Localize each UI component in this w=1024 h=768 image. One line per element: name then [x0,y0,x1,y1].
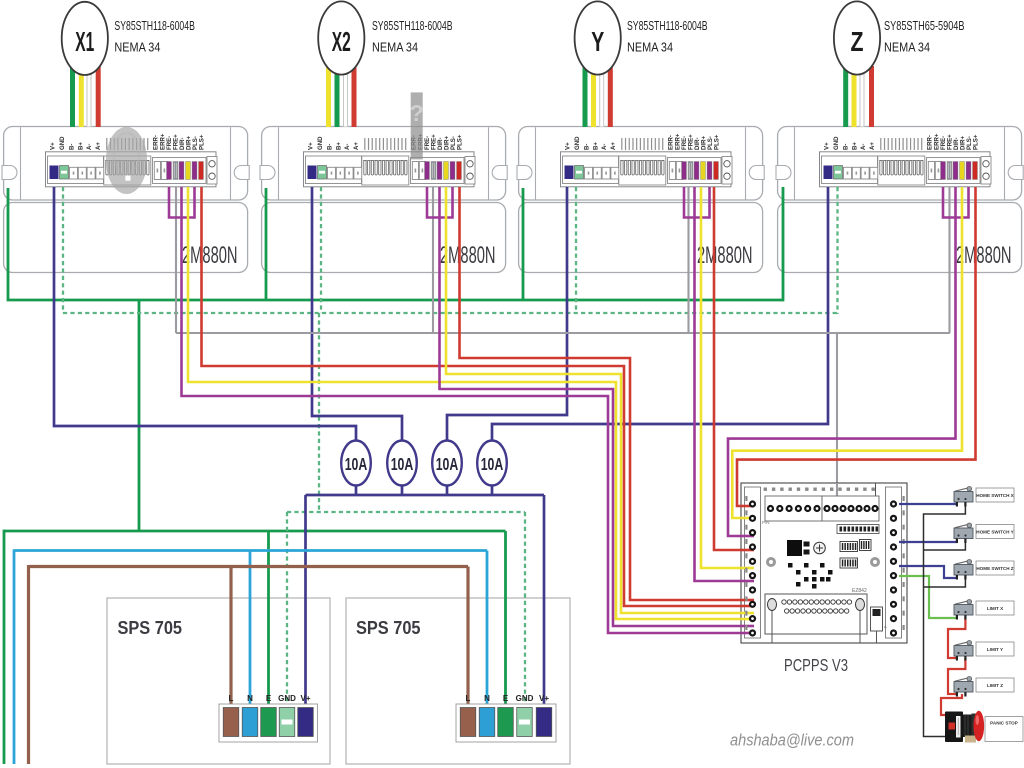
svg-text:GND: GND [516,694,534,703]
svg-text:ahshaba@live.com: ahshaba@live.com [730,731,854,750]
svg-text:LIMIT Z: LIMIT Z [987,683,1003,688]
svg-text:NEMA 34: NEMA 34 [884,39,930,54]
svg-text:Y: Y [591,26,604,57]
svg-text:PCPPS V3: PCPPS V3 [784,655,848,675]
svg-text:N: N [484,694,490,703]
svg-text:10A: 10A [481,454,504,474]
svg-text:HOME SWITCH Y: HOME SWITCH Y [976,529,1013,534]
svg-text:HOME SWITCH X: HOME SWITCH X [976,493,1014,498]
svg-text:LIMIT Y: LIMIT Y [987,647,1003,652]
svg-text:V+: V+ [300,694,310,703]
svg-text:10A: 10A [345,454,368,474]
svg-text:L: L [466,694,471,703]
svg-text:A: A [884,624,887,629]
svg-text:NEMA 34: NEMA 34 [627,39,673,54]
svg-text:GND: GND [278,694,296,703]
svg-text:SPS 705: SPS 705 [356,617,421,638]
svg-text:L: L [229,694,234,703]
svg-text:E: E [503,694,509,703]
svg-text:SY85STH118-6004B: SY85STH118-6004B [372,18,453,33]
svg-text:HOME SWITCH Z: HOME SWITCH Z [976,566,1013,571]
svg-text:SY85STH65-5904B: SY85STH65-5904B [884,18,965,33]
svg-text:N: N [247,694,253,703]
svg-text:SPS 705: SPS 705 [118,617,183,638]
svg-text:SY85STH118-6004B: SY85STH118-6004B [114,18,194,33]
svg-text:NEMA 34: NEMA 34 [372,39,418,54]
svg-text:E: E [266,694,272,703]
svg-text:PANIC STOP: PANIC STOP [990,721,1018,726]
svg-text:Z: Z [851,26,864,57]
svg-text:X1: X1 [75,26,94,57]
svg-text:SY85STH118-6004B: SY85STH118-6004B [627,18,708,33]
svg-text:LIMIT X: LIMIT X [987,606,1004,611]
svg-text:P/N: P/N [762,520,770,525]
svg-text:?: ? [410,100,424,126]
svg-text:V+: V+ [539,694,549,703]
svg-text:NEMA 34: NEMA 34 [114,39,160,54]
svg-text:10A: 10A [436,454,459,474]
svg-text:X2: X2 [332,26,351,57]
svg-text:EZ842: EZ842 [852,588,867,594]
svg-text:10A: 10A [391,454,414,474]
